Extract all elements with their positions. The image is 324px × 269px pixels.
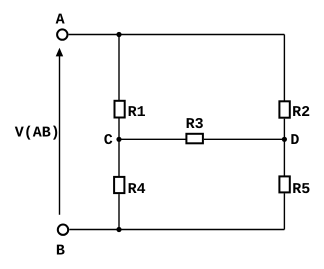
svg-text:R3: R3 [186,116,204,133]
resistor R2 [279,101,289,117]
wire right branch lower: R5 to bottom-right corner [283,193,285,229]
wire top: A to top-right corner [69,34,285,36]
wire middle left: node C to R3 [119,138,186,140]
svg-text:B: B [56,243,65,260]
terminal B [58,225,68,235]
wire left branch upper: top junction to R1 [118,35,120,101]
svg-text:R1: R1 [128,104,146,121]
resistor R5 [279,176,289,192]
svg-text:R4: R4 [128,181,146,198]
svg-text:C: C [104,132,113,149]
wire right branch middle: R2 to R5 [283,119,285,176]
svg-text:A: A [56,12,65,29]
junction dot top (A wire / left branch) [116,32,121,37]
resistor R3 [186,134,203,144]
V(AB) arrowhead [56,48,64,57]
node D junction dot [282,137,287,142]
svg-text:D: D [290,132,299,149]
wire left branch lower: R4 to bottom junction [118,194,120,229]
wire middle right: R3 to node D [204,138,285,140]
wire left branch middle: R1 to R4 [118,119,120,177]
resistor R1 [115,101,125,118]
wire bottom: B to bottom-right corner [69,229,284,231]
node C junction dot [116,137,121,142]
terminal A [57,29,67,39]
resistor R4 [114,177,124,193]
wire right branch upper: top-right corner to R2 [283,35,285,101]
svg-text:V(AB): V(AB) [15,125,60,142]
svg-text:R5: R5 [292,181,310,198]
junction dot bottom (B wire / left branch) [116,227,121,232]
svg-text:R2: R2 [292,104,310,121]
V(AB) arrow line [59,54,61,215]
